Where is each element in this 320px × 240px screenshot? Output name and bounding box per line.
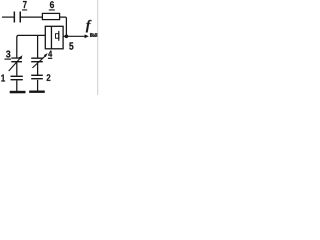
label 7 <box>22 1 27 11</box>
wire C7 to R6 <box>21 16 43 18</box>
wire C3 to C1 <box>16 62 18 75</box>
label 1 <box>1 75 5 82</box>
label 2 <box>47 74 51 81</box>
capacitor C3 variable plates <box>11 57 22 62</box>
label 6 <box>49 1 55 10</box>
crystal right electrode <box>58 31 59 41</box>
ground bar branch2 <box>29 91 45 93</box>
label 5 <box>69 42 73 49</box>
crystal element rect <box>56 34 59 39</box>
capacitor C3 arrow <box>9 55 23 71</box>
capacitor C1 <box>11 76 23 81</box>
resistor R6 <box>42 13 59 19</box>
wire C2 to ground <box>37 80 39 91</box>
capacitor C4 variable plates <box>31 58 43 63</box>
ground bar branch1 <box>10 91 26 94</box>
wire main horizontal with corner down to branch3 <box>17 35 46 57</box>
wire branch4 vertical <box>37 35 39 57</box>
capacitor C2 <box>31 75 43 80</box>
crystal partition electrode <box>51 26 52 49</box>
wire output with arrowhead <box>66 34 88 38</box>
label 4 <box>48 51 52 59</box>
wire U5 output <box>63 35 66 37</box>
wire R6 to corner <box>60 17 67 35</box>
crystal unit U5 box <box>45 26 63 49</box>
wire C4 to C2 <box>37 62 39 75</box>
node junction dot <box>65 34 69 38</box>
wire input stub top-left <box>2 16 14 18</box>
wire C1 to ground <box>16 80 18 91</box>
label f_vyh <box>86 20 98 37</box>
capacitor C4 arrow <box>32 53 47 68</box>
label 3 <box>5 51 12 60</box>
capacitor C7 <box>14 12 21 23</box>
